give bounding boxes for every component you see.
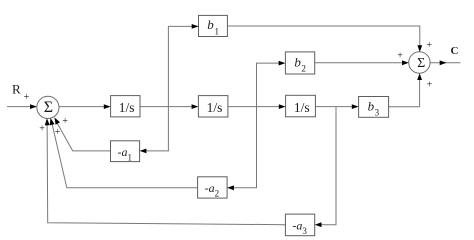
arrowhead into b1 bbox=[192, 24, 199, 29]
summing junction S1 bbox=[37, 96, 59, 118]
wire b3 output to summer2 bottom bbox=[389, 78, 420, 107]
arrowhead into integrator2 bbox=[192, 104, 199, 109]
arrowhead into summer1 bottom from -a3 bbox=[44, 118, 49, 125]
svg-text:Σ: Σ bbox=[417, 56, 425, 71]
arrowhead on output line to C bbox=[440, 60, 447, 65]
svg-text:+: + bbox=[427, 80, 433, 91]
wire b1 output to summer2 top bbox=[227, 26, 419, 47]
integrator block 1/s #3 bbox=[286, 95, 316, 117]
svg-text:b: b bbox=[207, 17, 214, 32]
wire R input to summer bbox=[7, 106, 36, 108]
wire node2 branch vertical (to b2 and -a2) bbox=[232, 63, 282, 188]
arrowhead into integrator1 bbox=[104, 104, 111, 109]
wire -a3 output return to summer1 bbox=[47, 120, 285, 225]
summing junction S2 bbox=[409, 52, 430, 73]
svg-text:1/s: 1/s bbox=[119, 100, 135, 115]
arrowhead into summer2 bottom bbox=[417, 73, 422, 80]
svg-text:1: 1 bbox=[215, 27, 220, 37]
svg-text:+: + bbox=[39, 124, 45, 135]
arrowhead into summer2 top bbox=[417, 45, 422, 52]
integrator block 1/s #1 bbox=[111, 96, 140, 117]
svg-text:+: + bbox=[426, 40, 432, 51]
arrowhead into integrator3 bbox=[279, 104, 286, 109]
wire node1 branch vertical (to b1 and -a1) bbox=[144, 26, 198, 150]
svg-text:2: 2 bbox=[215, 189, 220, 199]
svg-text:2: 2 bbox=[301, 64, 306, 74]
svg-text:1/s: 1/s bbox=[294, 100, 310, 115]
feedback block -a1 bbox=[111, 141, 140, 163]
svg-text:3: 3 bbox=[302, 226, 307, 236]
wire summer2 output to C bbox=[430, 62, 460, 64]
arrowhead into summer1 bottom from -a1 bbox=[52, 116, 60, 125]
arrowhead into -a3 bbox=[315, 222, 322, 227]
wire b2 output to summer2 left bbox=[315, 62, 405, 64]
wire node3 branch vertical (to -a3) bbox=[319, 107, 336, 225]
wire integrator1 to integrator2 bbox=[140, 106, 194, 108]
wire summer1 to integrator1 bbox=[59, 106, 106, 108]
svg-text:-a: -a bbox=[292, 219, 302, 233]
arrowhead into b3 bbox=[352, 104, 359, 109]
svg-text:C: C bbox=[451, 45, 459, 57]
feedback block -a3 bbox=[285, 214, 314, 236]
svg-text:b: b bbox=[368, 99, 375, 114]
wire integrator2 to integrator3 bbox=[228, 106, 281, 108]
svg-text:+: + bbox=[24, 92, 30, 103]
arrowhead into -a1 bbox=[140, 149, 147, 154]
arrowhead into summer1 bottom from -a2 bbox=[48, 117, 55, 125]
arrowhead into -a2 bbox=[227, 185, 234, 190]
svg-text:b: b bbox=[294, 55, 301, 70]
svg-text:1: 1 bbox=[128, 152, 133, 162]
svg-text:+: + bbox=[397, 51, 403, 62]
wire integrator3 to b3 bbox=[315, 106, 354, 108]
svg-text:-a: -a bbox=[118, 145, 128, 159]
arrowhead into b2 bbox=[279, 61, 286, 66]
integrator block 1/s #2 bbox=[198, 96, 228, 117]
svg-text:Σ: Σ bbox=[44, 99, 53, 116]
svg-text:3: 3 bbox=[375, 108, 380, 118]
gain block b1 bbox=[199, 15, 228, 36]
svg-text:-a: -a bbox=[205, 181, 215, 195]
wire -a2 output diagonal to summer1 bbox=[51, 121, 197, 188]
svg-text:+: + bbox=[55, 127, 61, 138]
gain block b3 bbox=[359, 97, 389, 118]
svg-text:1/s: 1/s bbox=[207, 100, 223, 115]
arrowhead into summer1 left bbox=[30, 104, 37, 109]
arrowhead into summer2 left bbox=[402, 60, 409, 65]
svg-text:+: + bbox=[62, 116, 68, 127]
feedback block -a2 bbox=[198, 177, 228, 199]
svg-text:R: R bbox=[12, 82, 21, 97]
gain block b2 bbox=[285, 52, 314, 74]
wire -a1 output diagonal to summer1 bbox=[55, 120, 110, 151]
